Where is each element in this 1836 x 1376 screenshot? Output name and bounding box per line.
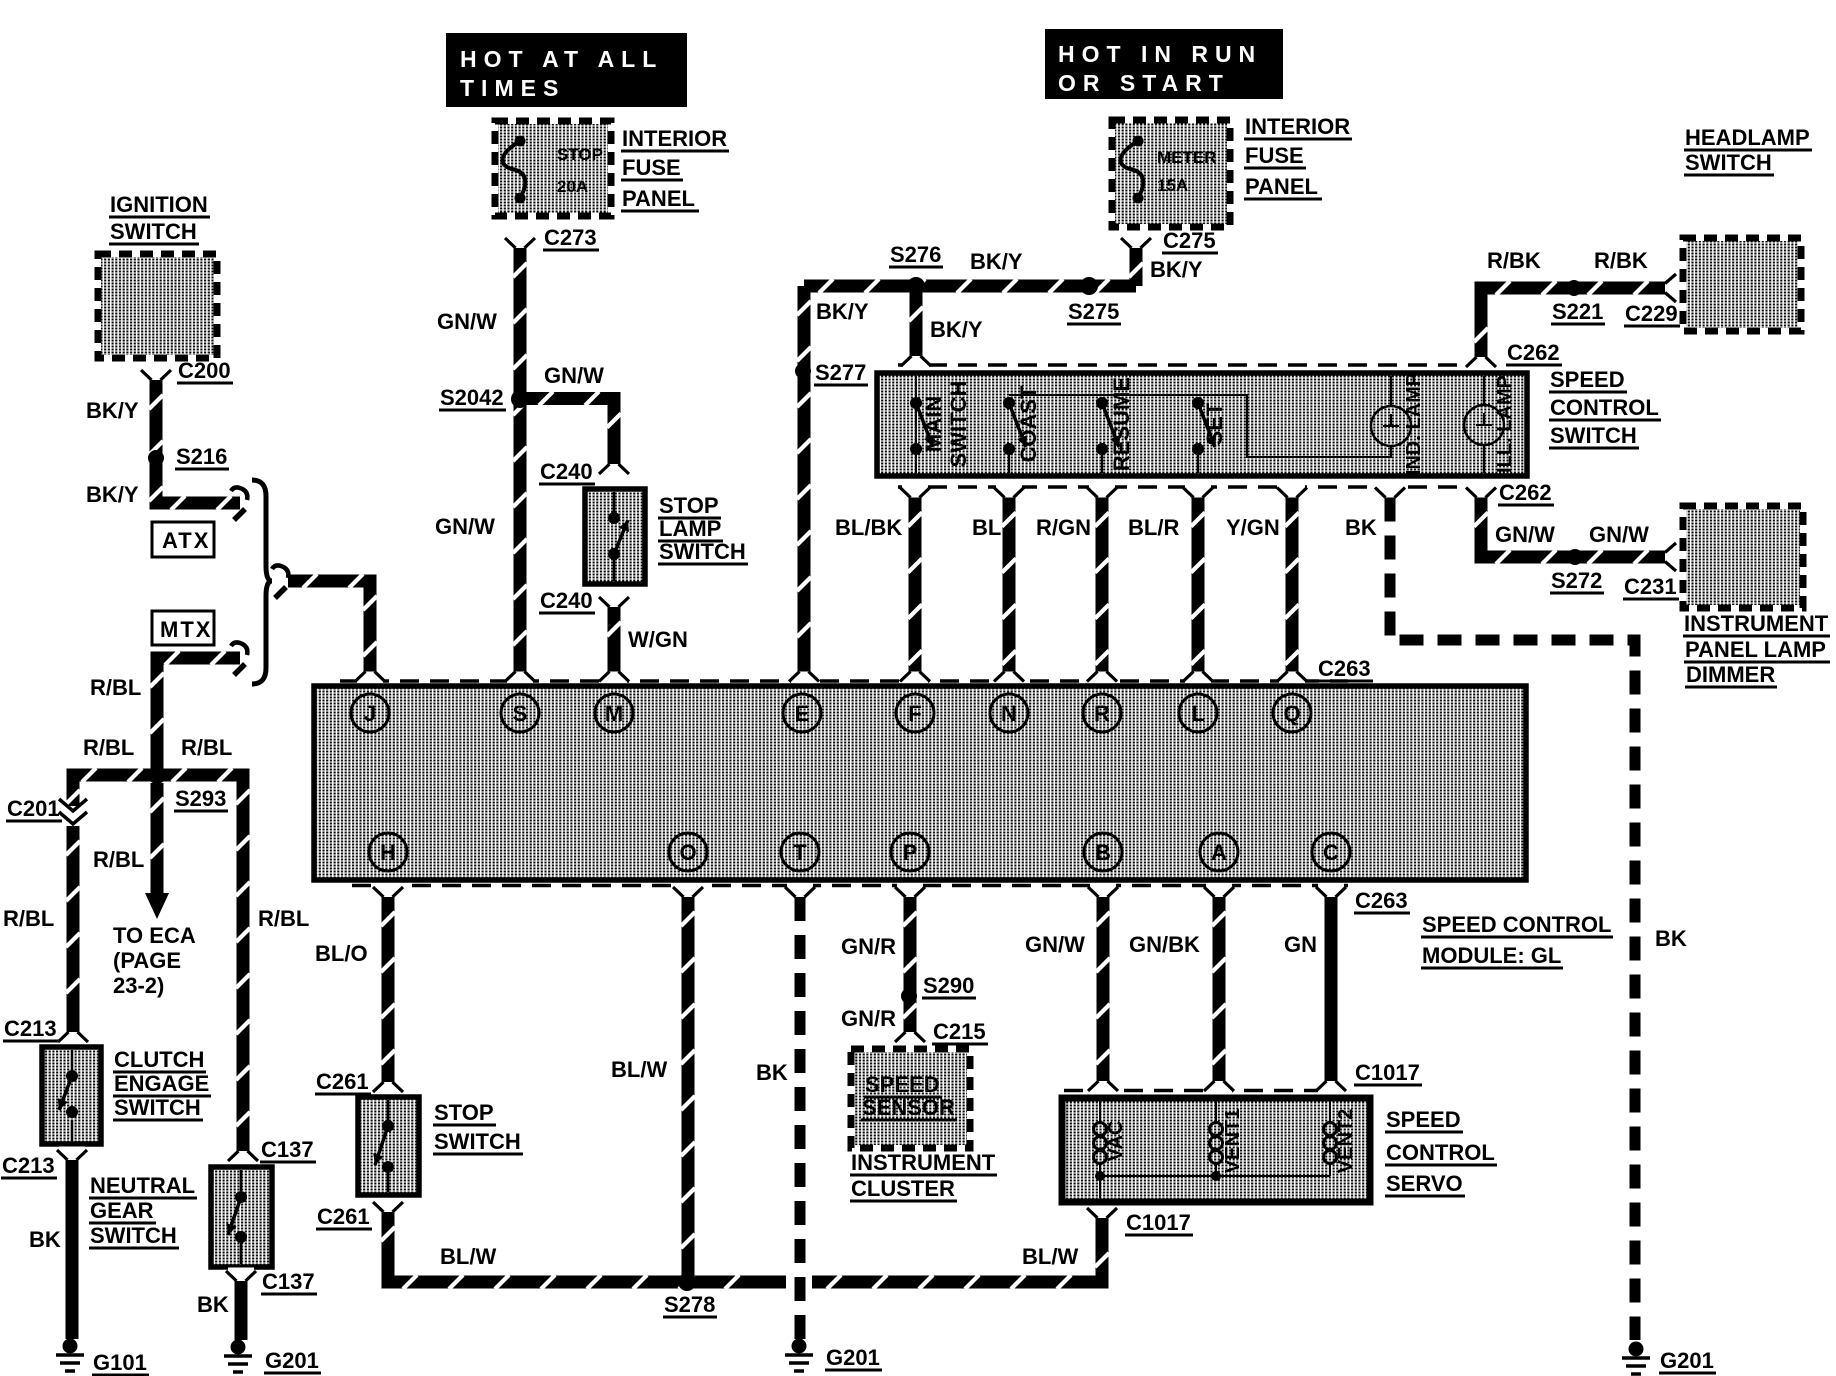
svg-text:C1017: C1017 [1355,1060,1420,1085]
svg-text:J: J [364,701,376,726]
svg-text:BL/O: BL/O [315,941,368,966]
speed sensor box [854,1052,967,1145]
svg-text:C137: C137 [261,1137,314,1162]
svg-text:Y/GN: Y/GN [1226,515,1280,540]
svg-text:BK: BK [29,1227,61,1252]
splice S272 [1567,549,1583,565]
svg-text:BL/BK: BL/BK [835,515,902,540]
svg-text:C263: C263 [1355,888,1408,913]
svg-text:SPEED: SPEED [1550,367,1625,392]
stop lamp switch box [585,489,645,584]
svg-text:C213: C213 [2,1153,55,1178]
svg-text:R/GN: R/GN [1036,515,1091,540]
svg-text:TO ECA: TO ECA [113,923,196,948]
svg-text:C240: C240 [540,459,593,484]
connector C213 lower [59,1147,85,1156]
svg-text:CLUTCH: CLUTCH [114,1047,204,1072]
connector dashed line above servo C1017 [1064,1089,1337,1093]
resume switch contacts [1101,449,1103,473]
wire BK dashed from switch to ground G201 right [1377,484,1403,493]
wire BL/W stop switch to S278 and servo C1017 [388,1212,786,1282]
svg-text:C201: C201 [7,796,60,821]
splice S221 [1566,280,1582,296]
wire BL/R pin to module pin L [1185,484,1211,493]
module pin J [351,694,389,732]
wire BK/Y horizontal bus S276 S275 [804,280,1136,293]
svg-text:CONTROL: CONTROL [1550,395,1659,420]
module pin P [891,833,929,871]
wire GN/W fuse to S2042 and module pin S [514,248,527,672]
servo VENT2 solenoid coil [1329,1101,1331,1122]
svg-text:STOP: STOP [659,493,719,518]
svg-text:RESUME: RESUME [1109,377,1134,471]
svg-text:S277: S277 [815,360,866,385]
svg-text:S2042: S2042 [440,385,504,410]
svg-text:G201: G201 [826,1345,880,1370]
svg-text:G201: G201 [1660,1348,1714,1373]
module pin B [1084,833,1122,871]
svg-text:HOT IN RUN: HOT IN RUN [1058,41,1262,67]
svg-text:COAST: COAST [1016,385,1041,463]
svg-text:PANEL: PANEL [622,186,695,211]
inline connector C201 [59,799,87,824]
svg-text:C263: C263 [1318,656,1371,681]
module pin C [1312,833,1350,871]
speed control switch box [877,373,1527,476]
svg-text:S290: S290 [923,973,974,998]
svg-text:R/BL: R/BL [93,847,144,872]
svg-text:IND. LAMP: IND. LAMP [1403,373,1425,475]
wire R/BL right branch to neutral gear switch [157,775,243,1151]
main switch contacts [915,376,917,473]
wire BK/Y left leg down to S277 and module pin E [798,286,811,672]
svg-text:R/BL: R/BL [3,906,54,931]
module pin A [1200,833,1238,871]
svg-text:SWITCH: SWITCH [114,1095,201,1120]
connector C275 [1123,235,1149,244]
svg-text:BK/Y: BK/Y [1150,257,1203,282]
wire GN/R module pin P to speed sensor [897,884,923,893]
connector C213 upper [60,1037,86,1046]
wire GN/BK module pin A to servo VENT1 [1206,884,1232,893]
svg-text:BK: BK [1655,926,1687,951]
indicator lamp IND. LAMP [1390,376,1392,406]
servo VAC solenoid coil [1099,1101,1101,1122]
connector dashed line above speed control switch [898,363,1468,367]
svg-text:SENSOR: SENSOR [862,1095,955,1120]
svg-text:DIMMER: DIMMER [1686,662,1775,687]
svg-text:TIMES: TIMES [460,75,565,101]
wire BK/Y ignition to S216 [156,380,240,503]
svg-text:BK: BK [756,1060,788,1085]
module pin F [896,694,934,732]
svg-text:ENGAGE: ENGAGE [114,1071,209,1096]
internal rail to indicator lamp [1009,395,1391,457]
svg-text:LAMP: LAMP [659,516,721,541]
svg-text:C213: C213 [4,1016,57,1041]
svg-text:BL/W: BL/W [1022,1244,1078,1269]
svg-text:C137: C137 [262,1269,315,1294]
svg-text:FUSE: FUSE [1245,143,1304,168]
svg-text:SPEED: SPEED [1386,1107,1461,1132]
speed control servo box [1062,1098,1370,1202]
svg-text:GN/W: GN/W [1589,522,1649,547]
interior fuse panel 2 box [1115,123,1227,224]
svg-text:INTERIOR: INTERIOR [622,126,727,151]
module pin Q [1273,694,1311,732]
svg-text:SWITCH: SWITCH [1685,150,1772,175]
splice S278 [678,1273,696,1291]
module pin H [369,833,407,871]
servo VENT1 solenoid coil [1215,1101,1217,1122]
svg-text:BK: BK [1345,515,1377,540]
svg-text:IGNITION: IGNITION [110,192,208,217]
svg-text:S278: S278 [664,1292,715,1317]
svg-text:P: P [903,840,918,865]
svg-text:SWITCH: SWITCH [946,381,971,468]
svg-text:SWITCH: SWITCH [1550,423,1637,448]
svg-text:C273: C273 [544,225,597,250]
svg-text:VAC: VAC [1105,1121,1127,1162]
wire BK/Y S276 down to speed control switch [910,292,923,356]
svg-text:B: B [1095,840,1111,865]
wire GN/W branch S2042 to C240 [524,399,614,465]
svg-text:BL: BL [972,515,1001,540]
svg-text:SWITCH: SWITCH [659,539,746,564]
splice S290 [901,988,917,1004]
connector C137 lower [228,1268,254,1277]
svg-text:Q: Q [1283,701,1300,726]
svg-text:BK/Y: BK/Y [970,249,1023,274]
speed control module connector box [314,686,1526,880]
svg-text:SWITCH: SWITCH [434,1129,521,1154]
clutch engage switch box [42,1047,101,1144]
ground G201 middle [792,1339,807,1354]
wire BL/W module pin O to S278 [675,884,701,893]
svg-text:BK/Y: BK/Y [930,317,983,342]
svg-text:R/BK: R/BK [1487,248,1541,273]
wire BK clutch switch to ground G101 [66,1160,79,1339]
svg-text:SWITCH: SWITCH [90,1223,177,1248]
svg-text:T: T [793,840,807,865]
svg-text:CLUSTER: CLUSTER [851,1176,955,1201]
svg-text:C231: C231 [1624,574,1677,599]
svg-text:ILL. LAMP: ILL. LAMP [1494,375,1516,473]
connector dashed line below module C263 [352,884,1348,888]
connector C240 lower [601,594,627,603]
wire Y/GN pin to module pin Q [1279,484,1305,493]
svg-text:GN/W: GN/W [1495,522,1555,547]
svg-text:PANEL LAMP: PANEL LAMP [1685,637,1826,662]
ground G201 left [231,1340,246,1355]
svg-text:GN/W: GN/W [435,514,495,539]
instrument panel lamp dimmer box [1686,509,1800,605]
svg-text:L: L [1191,701,1204,726]
svg-text:G201: G201 [265,1348,319,1373]
svg-text:SPEED CONTROL: SPEED CONTROL [1422,912,1611,937]
svg-text:GN: GN [1284,932,1317,957]
svg-text:S272: S272 [1551,568,1602,593]
wire R/BL to ECA arrow [151,783,164,893]
svg-text:E: E [795,701,810,726]
svg-text:HEADLAMP: HEADLAMP [1685,125,1810,150]
ground G201 right [1629,1342,1644,1357]
svg-text:INSTRUMENT: INSTRUMENT [1684,611,1829,636]
svg-text:C1017: C1017 [1126,1210,1191,1235]
svg-text:23-2): 23-2) [113,973,164,998]
splice S276 [907,277,925,295]
wire R/BK headlamp to speed control switch [1481,288,1665,357]
wire BL pin to module pin N [996,484,1022,493]
svg-text:GN/W: GN/W [544,363,604,388]
fuse METER 15A [1133,136,1144,147]
wire BK neutral switch to ground G201 [235,1281,248,1340]
svg-text:BL/W: BL/W [440,1244,496,1269]
wire GN/W from C262 to instrument panel lamp dimmer [1468,484,1494,493]
svg-text:INTERIOR: INTERIOR [1245,114,1350,139]
interior fuse panel 1 box [498,124,608,213]
module pin N [990,694,1028,732]
svg-text:CONTROL: CONTROL [1386,1140,1495,1165]
connector C200 [143,367,169,376]
module pin T [781,833,819,871]
svg-text:G101: G101 [93,1350,147,1375]
servo internal ground bus [1100,1175,1330,1177]
svg-text:S276: S276 [890,242,941,267]
svg-text:R/BL: R/BL [83,735,134,760]
splice S2042 [511,390,529,408]
wire GN/W module pin B to servo VAC [1090,884,1116,893]
splice S275 [1080,277,1098,295]
svg-text:C275: C275 [1163,228,1216,253]
module pin M [595,694,633,732]
svg-text:C200: C200 [178,358,231,383]
wire R/BL left branch to clutch engage switch [73,775,157,806]
svg-text:SET: SET [1202,402,1227,445]
label MTX [152,611,214,645]
svg-text:PANEL: PANEL [1245,174,1318,199]
svg-text:GN/W: GN/W [437,309,497,334]
svg-text:SERVO: SERVO [1386,1171,1463,1196]
svg-text:S216: S216 [176,444,227,469]
wire BL/BK pin to module pin F [902,484,928,493]
svg-text:BK/Y: BK/Y [86,398,139,423]
svg-text:FUSE: FUSE [622,155,681,180]
connector C137 upper [230,1156,256,1165]
svg-text:MAIN: MAIN [921,396,946,452]
neutral gear switch box [211,1167,272,1267]
svg-text:STOP: STOP [434,1100,494,1125]
svg-text:NEUTRAL: NEUTRAL [90,1173,195,1198]
svg-text:BL/W: BL/W [611,1057,667,1082]
svg-text:M: M [605,701,623,726]
svg-text:GEAR: GEAR [90,1198,154,1223]
svg-text:C262: C262 [1507,340,1560,365]
module pin L [1179,694,1217,732]
svg-text:O: O [679,840,696,865]
svg-text:METER: METER [1157,148,1217,167]
svg-text:N: N [1001,701,1017,726]
wire from brace to module pin J [288,581,370,672]
svg-text:INSTRUMENT: INSTRUMENT [851,1150,996,1175]
svg-text:R/BK: R/BK [1594,248,1648,273]
svg-text:BK: BK [197,1292,229,1317]
svg-text:SPEED: SPEED [865,1072,940,1097]
wire BK/Y fuse2 down to main run [1130,248,1143,286]
headlamp switch box [1686,241,1798,328]
svg-text:BK/Y: BK/Y [86,482,139,507]
svg-text:VENT2: VENT2 [1335,1109,1357,1173]
svg-text:R/BL: R/BL [90,675,141,700]
svg-text:GN/W: GN/W [1025,932,1085,957]
ignition switch box [101,257,214,355]
svg-text:STOP: STOP [557,145,603,164]
svg-text:HOT AT ALL: HOT AT ALL [460,46,663,72]
svg-text:A: A [1211,840,1227,865]
svg-text:C261: C261 [316,1069,369,1094]
svg-text:R/BL: R/BL [258,906,309,931]
svg-text:S275: S275 [1068,299,1119,324]
svg-text:C261: C261 [317,1204,370,1229]
stop switch box [358,1097,419,1195]
svg-text:R: R [1094,701,1110,726]
svg-text:MTX: MTX [160,617,212,642]
wire BL/O module pin H to stop switch [375,884,401,893]
label HOT IN RUN OR START power tag [1045,29,1283,99]
module pin O [669,833,707,871]
module pin E [783,694,821,732]
fuse STOP 20A [515,136,526,147]
svg-text:GN/R: GN/R [841,1006,896,1031]
connector dashed line below speed control switch C262 [898,485,1490,489]
svg-text:GN/BK: GN/BK [1129,932,1200,957]
wire GN module pin C to servo VENT2 [1318,884,1344,893]
label ATX [152,522,214,557]
label HOT AT ALL TIMES power tag [446,33,687,107]
svg-text:20A: 20A [557,177,588,196]
svg-text:SWITCH: SWITCH [110,219,197,244]
connector C273 [507,235,533,244]
svg-text:BK/Y: BK/Y [816,299,869,324]
svg-text:C: C [1323,840,1339,865]
svg-text:S293: S293 [175,786,226,811]
connector dashed line above module C263 [340,679,1348,683]
svg-text:C215: C215 [933,1019,986,1044]
svg-text:(PAGE: (PAGE [113,948,181,973]
illumination lamp ILL. LAMP [1483,376,1485,405]
svg-text:S: S [513,701,528,726]
set switch contacts [1197,449,1199,473]
module pin S [501,694,539,732]
svg-text:BL/R: BL/R [1128,515,1179,540]
svg-text:MODULE: GL: MODULE: GL [1422,943,1561,968]
svg-text:ATX: ATX [162,528,210,553]
svg-text:C262: C262 [1499,480,1552,505]
svg-text:GN/R: GN/R [841,934,896,959]
wire BK dashed module pin T to ground G201 [787,884,813,893]
svg-text:15A: 15A [1157,176,1188,195]
svg-text:H: H [380,840,396,865]
splice S277 [795,363,811,379]
wire R/GN pin to module pin R [1089,484,1115,493]
svg-text:OR START: OR START [1058,70,1230,96]
coast switch contacts [1008,449,1010,473]
wire R/BL MTX branch to S293 [157,658,240,775]
ground G101 [63,1339,78,1354]
svg-text:C229: C229 [1625,301,1678,326]
splice S216 [148,450,164,466]
svg-text:F: F [908,701,921,726]
svg-text:W/GN: W/GN [628,627,688,652]
svg-text:R/BL: R/BL [181,735,232,760]
brace joining ATX and MTX paths [252,480,272,684]
connector C261 lower [375,1199,401,1208]
splice S293 [148,766,166,784]
svg-text:VENT1: VENT1 [1222,1109,1244,1173]
svg-text:C240: C240 [540,588,593,613]
module pin R [1083,694,1121,732]
wire W/GN to module pin M [608,607,621,672]
svg-text:S221: S221 [1552,299,1603,324]
